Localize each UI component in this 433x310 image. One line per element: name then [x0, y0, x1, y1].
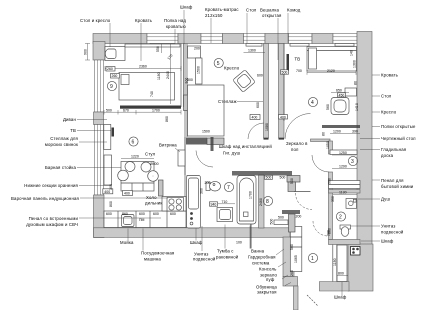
kitchen counter dims 600 860 600 600 600 [106, 212, 176, 216]
svg-text:670: 670 [123, 108, 129, 112]
top wall gray segment 2 [178, 34, 201, 44]
chair room9 [105, 49, 116, 59]
dimension 300 bath [200, 188, 204, 194]
svg-text:260: 260 [107, 67, 113, 71]
mirror label [286, 141, 308, 152]
bathtub inner [240, 178, 254, 221]
svg-text:Кресло: Кресло [224, 66, 240, 71]
svg-text:1180: 1180 [333, 258, 337, 266]
room number 8 [263, 196, 272, 205]
svg-text:200: 200 [296, 214, 302, 218]
svg-text:700: 700 [296, 69, 302, 73]
svg-text:1180: 1180 [157, 72, 161, 80]
svg-text:Посудомоечная: Посудомоечная [141, 251, 175, 256]
podium gray strip [207, 138, 224, 145]
bar counter [121, 162, 154, 192]
top wall gray segment 5 [312, 34, 333, 44]
window sill 4 [335, 44, 354, 47]
svg-text:Кровать: Кровать [381, 73, 399, 78]
hatched bar hall bottom [232, 171, 292, 176]
svg-text:пуф: пуф [266, 277, 275, 282]
dimension 200 room5 [194, 47, 200, 51]
dimension 200 wardrobe [290, 270, 294, 276]
dimension 800 entry [337, 272, 348, 276]
svg-text:Шкаф: Шкаф [381, 239, 394, 244]
entry stove icon [351, 247, 361, 256]
dimension 1130 room2 [333, 191, 357, 195]
dimension 500 wardrobe [290, 244, 294, 250]
hob 4 burners [167, 198, 184, 212]
svg-text:400: 400 [280, 115, 286, 119]
dimension 260 b [111, 74, 120, 79]
hatched wall right of room8 [282, 210, 300, 214]
svg-text:500: 500 [282, 70, 288, 74]
room number 1 [308, 253, 317, 262]
bar stool 2 [141, 162, 151, 172]
dimension 1180 corridor [333, 258, 337, 266]
svg-text:80: 80 [322, 132, 326, 136]
top leader lines [110, 10, 288, 61]
svg-text:Варочная панель индукционная: Варочная панель индукционная [11, 196, 79, 201]
room8 top block [288, 182, 296, 192]
svg-text:бытовой химии: бытовой химии [381, 184, 414, 189]
cabinet inner [189, 178, 199, 209]
left wall bottom corner [94, 195, 105, 238]
tv label room4 [295, 57, 301, 62]
fridge label [145, 195, 162, 206]
svg-text:Шкаф над инсталляцией: Шкаф над инсталляцией [219, 144, 272, 149]
svg-text:140: 140 [350, 50, 354, 56]
toilet bathroom7 [206, 181, 221, 191]
vanity bathroom7 [217, 208, 233, 222]
svg-text:600: 600 [153, 212, 159, 216]
entry niche (closet) [337, 245, 347, 282]
room8 bottom block [289, 214, 296, 232]
svg-text:650: 650 [336, 89, 342, 93]
pillow room9 [121, 75, 129, 85]
door arc room1 closet [313, 221, 328, 236]
dimension 300 kitchen [109, 184, 113, 190]
left wall corner top [93, 42, 105, 61]
room8 top shelf strip [287, 176, 300, 183]
installation dark block [186, 138, 207, 145]
svg-text:подвесной: подвесной [193, 257, 216, 262]
dimension 1410 room4 [355, 103, 359, 111]
svg-text:1050: 1050 [326, 141, 330, 149]
svg-text:пол: пол [291, 147, 299, 152]
dimension 80 room4 [354, 81, 358, 85]
svg-text:200: 200 [194, 47, 200, 51]
svg-text:1700: 1700 [152, 108, 160, 112]
dimension 600 shelf [256, 102, 260, 108]
room4 bed [307, 47, 357, 72]
dimension 1500 room5 [197, 66, 201, 74]
svg-text:9: 9 [110, 84, 113, 90]
door arc room3 [312, 155, 329, 172]
entry bottom wall [320, 282, 350, 292]
dimension 1300 top [244, 49, 266, 53]
tall cabinet bathroom [187, 176, 201, 229]
svg-text:1300: 1300 [353, 60, 357, 68]
bar stool 4 [148, 171, 159, 182]
toilet room2 [340, 225, 351, 236]
dimension 650 armchair4 [331, 89, 349, 93]
svg-text:600: 600 [170, 212, 176, 216]
kitchen counter divisions [118, 211, 167, 228]
entry wall mass bottom right [348, 244, 373, 291]
svg-text:1220: 1220 [131, 154, 139, 158]
dimension 700 room4 [296, 69, 302, 73]
right exterior wall [357, 32, 372, 257]
svg-text:1130: 1130 [339, 191, 347, 195]
dimension 1290 [332, 165, 357, 169]
svg-text:Стеллаж: Стеллаж [218, 99, 237, 104]
svg-text:500: 500 [278, 215, 284, 219]
svg-text:200: 200 [290, 270, 294, 276]
svg-text:3: 3 [351, 159, 354, 165]
dimension 1700 bath [249, 191, 253, 199]
entry door leaf [307, 295, 318, 306]
sink bowl [124, 217, 133, 225]
top wall window 4 [289, 34, 313, 44]
svg-text:Барная стойка: Барная стойка [45, 165, 77, 170]
svg-text:Мойка: Мойка [120, 240, 134, 245]
room5 left wall [185, 44, 187, 176]
left labels [11, 117, 79, 227]
svg-text:Шкаф: Шкаф [180, 5, 193, 10]
svg-text:ПМ: ПМ [139, 218, 145, 222]
sink [122, 215, 135, 227]
bottom labels [120, 240, 347, 300]
vitrine room6 [178, 150, 185, 166]
svg-text:500: 500 [270, 219, 274, 225]
dimension 400 box b [103, 189, 113, 194]
svg-text:Кровать: Кровать [135, 18, 153, 23]
svg-text:машина: машина [144, 257, 161, 262]
door arc kitchen [196, 151, 213, 168]
room8 bottom shelf [274, 220, 288, 225]
svg-text:800: 800 [109, 201, 113, 207]
dimension 1300 room4 [353, 60, 357, 68]
svg-text:2440: 2440 [166, 71, 170, 79]
top wall gray segment 4 [265, 34, 289, 44]
svg-text:Унитаз: Унитаз [381, 224, 395, 229]
bath7/8 divider wall [259, 175, 265, 228]
room4 bed inner line [307, 50, 357, 52]
dimension: 900 left [84, 44, 91, 61]
left wall window upper [95, 60, 104, 112]
ironing board room3 [329, 181, 361, 189]
room number 2 [336, 212, 345, 221]
dimension 260 a [106, 67, 115, 72]
drawing table room3 [330, 150, 357, 155]
room number 5 [214, 58, 223, 67]
dimension 600 armchair [257, 74, 263, 78]
dimension 170 [167, 54, 174, 61]
svg-text:4: 4 [311, 100, 314, 106]
svg-text:Тумба с: Тумба с [217, 249, 234, 254]
bed room9 [119, 73, 175, 101]
room5 small cupboard [188, 46, 201, 58]
dimension 300 room5 [187, 78, 193, 82]
dimension 1250 [332, 151, 356, 155]
dimension 500/670/1700 row [104, 108, 181, 114]
svg-text:Комод: Комод [287, 8, 301, 13]
dimension 860 [165, 116, 169, 122]
svg-text:открытая: открытая [262, 13, 282, 18]
room number 7 [224, 182, 233, 191]
wall strip down to image bottom [294, 286, 299, 310]
svg-text:900: 900 [328, 178, 332, 184]
svg-text:Чертежный стол: Чертежный стол [381, 136, 416, 141]
svg-text:500: 500 [185, 78, 189, 84]
bottom exterior wall [94, 228, 291, 238]
dimension 800 kitchen [109, 201, 113, 207]
svg-text:260: 260 [112, 74, 118, 78]
corridor double-line wall lower [333, 245, 337, 282]
svg-text:Стол: Стол [381, 94, 392, 99]
svg-text:710: 710 [222, 200, 228, 204]
svg-text:1290: 1290 [339, 165, 347, 169]
svg-text:800: 800 [338, 272, 344, 276]
svg-text:Пенал со встроенными: Пенал со встроенными [29, 216, 79, 221]
dimension 400 a hall [250, 115, 260, 120]
dimension 200 bath [205, 181, 211, 185]
svg-text:Зеркало в: Зеркало в [286, 141, 308, 146]
bath leader stub [250, 222, 251, 249]
svg-text:Кровать-матрас: Кровать-матрас [205, 7, 239, 12]
svg-text:закрытая: закрытая [257, 290, 277, 295]
svg-text:600: 600 [106, 212, 112, 216]
svg-text:1250: 1250 [339, 151, 347, 155]
svg-text:8: 8 [266, 199, 269, 205]
right leader lines [351, 75, 380, 241]
svg-text:860: 860 [122, 212, 128, 216]
svg-text:200: 200 [205, 181, 211, 185]
svg-text:морских свинок: морских свинок [45, 142, 78, 147]
room2/3 corridor wall upper [329, 141, 333, 154]
top wall gray segment 3 [223, 34, 244, 44]
dining table [152, 175, 154, 177]
svg-text:600: 600 [139, 212, 145, 216]
dark partition room9/room6 [120, 106, 181, 109]
dimension 500 500 room8 top [265, 175, 295, 184]
chair label room6 [145, 152, 156, 157]
svg-text:1500: 1500 [202, 130, 210, 134]
svg-text:7: 7 [227, 185, 230, 191]
svg-text:2: 2 [339, 215, 342, 221]
window sill 3 [290, 44, 309, 47]
svg-text:500: 500 [266, 176, 272, 180]
top wall window 2 [201, 34, 223, 44]
shower room2 [346, 199, 357, 209]
room number 9 [107, 81, 116, 90]
svg-text:2460: 2460 [259, 198, 263, 206]
room2 bottom wall [329, 240, 361, 245]
svg-text:1300: 1300 [248, 49, 256, 53]
right labels [381, 73, 416, 244]
door arc hall 1 [248, 123, 264, 139]
svg-text:550: 550 [156, 46, 160, 52]
dimension 400 box [123, 191, 133, 196]
svg-text:Полка над: Полка над [164, 18, 186, 23]
svg-text:Диван: Диван [63, 117, 77, 122]
svg-text:Гладильная: Гладильная [381, 147, 407, 152]
svg-text:Шкаф: Шкаф [334, 295, 347, 300]
svg-text:500: 500 [290, 178, 294, 184]
dimension 500 room5 [185, 78, 189, 84]
top wall window 5 [333, 34, 357, 44]
svg-text:Стол и кресло: Стол и кресло [80, 18, 111, 23]
shoe cabinet step [283, 277, 298, 287]
svg-text:2360: 2360 [139, 64, 147, 68]
left wall window lower [95, 125, 104, 196]
vitrine label [159, 143, 180, 153]
door arc hall 2 [285, 114, 311, 140]
kitchen counter [104, 211, 186, 228]
room4 armchair [331, 98, 349, 115]
sofa room6 [104, 125, 111, 150]
dimension 140 room4 [350, 50, 354, 56]
svg-text:Полки открытые: Полки открытые [381, 124, 416, 129]
svg-text:212х150: 212х150 [205, 13, 223, 18]
svg-text:Душ: Душ [381, 197, 390, 202]
svg-text:1065: 1065 [294, 255, 298, 263]
svg-text:Шкаф: Шкаф [190, 240, 203, 245]
svg-text:раковиной: раковиной [216, 255, 239, 260]
dimension 560 armchair4 [326, 104, 330, 110]
armchair room5 rotated [233, 70, 256, 93]
svg-text:Стул: Стул [145, 152, 156, 157]
room2/3 divider wall [329, 190, 361, 194]
room number 3 [348, 156, 357, 165]
top wall window 1 [147, 34, 178, 44]
svg-text:940: 940 [211, 202, 217, 206]
svg-text:система: система [252, 261, 270, 266]
window sill 2 [246, 44, 262, 47]
guinea pig shelf [104, 155, 112, 185]
room3 entry wall [311, 139, 331, 142]
dimension 800 room2 [328, 228, 332, 234]
svg-text:кроватью: кроватью [166, 24, 186, 29]
room9 right wall [181, 44, 184, 108]
svg-text:80: 80 [354, 81, 358, 85]
dimension 500 box room4 [281, 70, 289, 75]
svg-text:дильник: дильник [145, 201, 162, 206]
svg-text:1700: 1700 [249, 191, 253, 199]
bathtub [237, 176, 256, 225]
dimension 500 200 room8 bottom [270, 214, 302, 224]
dimension 450 box room4 [338, 93, 346, 98]
top wall window 3 [244, 34, 266, 44]
svg-text:390: 390 [352, 130, 358, 134]
open shelves room4 [322, 125, 360, 128]
dimension 400 b hall [279, 115, 288, 120]
svg-text:подвесной: подвесной [381, 230, 404, 235]
dimension 1050 [326, 141, 330, 149]
svg-text:350: 350 [331, 196, 335, 202]
svg-text:600: 600 [256, 102, 260, 108]
room number 4 [308, 97, 317, 106]
dimension 100 corridor [236, 241, 242, 245]
svg-text:400: 400 [124, 192, 130, 196]
svg-text:740: 740 [150, 91, 154, 97]
wardrobe niche [290, 227, 302, 272]
bathtub drain [244, 212, 249, 217]
svg-text:Ø400: Ø400 [150, 162, 159, 166]
dimension 2120 room4 [307, 69, 356, 75]
svg-text:ТВ: ТВ [70, 128, 76, 133]
dimension 740 [150, 91, 154, 97]
shelf wall cap [264, 138, 269, 140]
svg-text:6: 6 [132, 140, 135, 146]
svg-text:Пенал для: Пенал для [381, 178, 404, 183]
wardrobe gray block [184, 95, 201, 111]
svg-text:1080: 1080 [265, 123, 269, 131]
svg-text:доска: доска [381, 153, 394, 158]
svg-text:Гардеробная: Гардеробная [248, 255, 276, 260]
svg-text:Гиг. душ: Гиг. душ [223, 151, 241, 156]
door arc room2 [296, 193, 313, 210]
kitchen corner section [162, 197, 186, 212]
svg-text:Стол: Стол [246, 8, 257, 13]
dimension 1200 390 shelves [322, 130, 361, 136]
installation labels [219, 144, 272, 156]
svg-text:500: 500 [280, 176, 286, 180]
svg-text:Вешалка: Вешалка [260, 8, 279, 13]
svg-text:духовым шкафом и СВЧ: духовым шкафом и СВЧ [26, 222, 78, 227]
window sill 1 [150, 44, 175, 47]
svg-text:1500: 1500 [197, 66, 201, 74]
tv room6 [112, 128, 115, 137]
svg-text:300: 300 [200, 188, 204, 194]
svg-text:Холо: Холо [146, 195, 157, 200]
bar inner divisions [121, 183, 154, 191]
dimension 900 room3 [328, 178, 332, 184]
dimension 1065 wardrobe [294, 255, 298, 263]
dimension 350 room2 [331, 196, 335, 202]
room4 tv [287, 54, 290, 71]
room number 6 [129, 137, 138, 146]
shelf over bed [125, 44, 180, 47]
svg-text:5: 5 [217, 61, 220, 67]
svg-text:Ванна: Ванна [251, 249, 265, 254]
svg-text:2120: 2120 [327, 69, 335, 73]
svg-text:300: 300 [109, 184, 113, 190]
armchair label room5 [224, 66, 240, 71]
bottom leader lines [128, 225, 342, 297]
svg-text:Кресло: Кресло [381, 110, 397, 115]
small dark pier [211, 137, 214, 151]
svg-text:1200: 1200 [333, 130, 341, 134]
dimension 1220 [121, 154, 154, 158]
room5 mattress bed [188, 85, 225, 136]
desk room9 [105, 47, 125, 61]
svg-text:560: 560 [326, 104, 330, 110]
top wall gray segment 1 [93, 34, 147, 44]
svg-text:500: 500 [106, 108, 112, 112]
svg-text:1410: 1410 [355, 103, 359, 111]
hook dots [190, 212, 193, 225]
top labels [80, 5, 301, 30]
svg-text:Витрина: Витрина [159, 143, 177, 148]
hall wall upper [279, 44, 285, 139]
room4 tv wall line [283, 44, 285, 122]
shelf wall room5 upper [264, 44, 269, 139]
dimension 2440 [166, 44, 171, 104]
dimension 940 box bath [210, 202, 218, 207]
svg-text:Консоль: Консоль [259, 267, 277, 272]
